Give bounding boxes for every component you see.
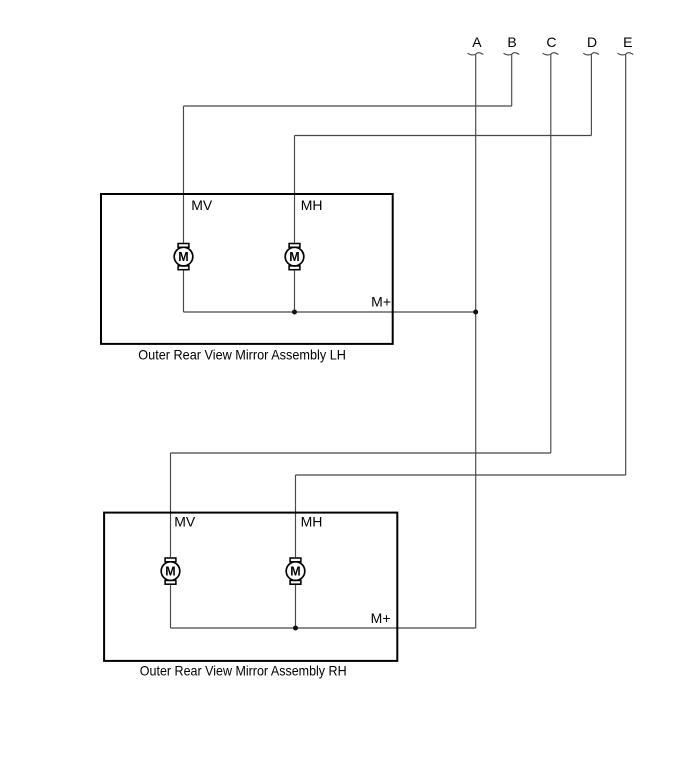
wire D horizontal to LH MH branch <box>295 135 592 137</box>
pin label M+ (RH) <box>371 610 391 626</box>
svg-text:M: M <box>165 565 175 579</box>
svg-text:MV: MV <box>191 197 213 213</box>
svg-text:M+: M+ <box>371 610 391 626</box>
svg-text:B: B <box>507 34 516 50</box>
wire D vertical: terminal D down <box>590 55 592 136</box>
connector stub D <box>583 53 599 55</box>
svg-text:MH: MH <box>301 514 323 530</box>
wire C vertical: terminal C down <box>550 55 552 453</box>
junction dot LH M+ / MH <box>292 310 297 315</box>
wire C horizontal to RH MV branch <box>171 452 551 454</box>
junction dot LH M+ / wire A <box>473 310 478 315</box>
junction dot RH M+ / MH <box>293 626 298 631</box>
svg-text:Outer Rear View Mirror Assembl: Outer Rear View Mirror Assembly RH <box>140 662 347 678</box>
wire RH MH motor bottom to M+ line <box>295 585 297 628</box>
box Outer Rear View Mirror Assembly RH <box>104 513 397 661</box>
svg-text:M: M <box>289 250 299 264</box>
pin label MV (RH) <box>174 514 196 530</box>
connector stub E <box>618 53 634 55</box>
svg-text:Outer Rear View Mirror Assembl: Outer Rear View Mirror Assembly LH <box>138 346 346 362</box>
svg-text:MH: MH <box>301 197 323 213</box>
wire LH MH vertical: down into LH box to motor MH <box>294 136 296 243</box>
wire RH MH vertical: down into RH box to motor MH <box>295 475 297 557</box>
wire B vertical: terminal B down <box>511 55 513 106</box>
terminal label D <box>587 34 597 50</box>
wire LH MH motor bottom to M+ line <box>294 271 296 312</box>
motor MH (LH) <box>285 244 304 270</box>
svg-text:C: C <box>546 34 556 50</box>
terminal label E <box>623 34 632 50</box>
svg-text:E: E <box>623 34 632 50</box>
svg-text:A: A <box>472 34 482 50</box>
caption Outer Rear View Mirror Assembly LH <box>138 346 346 362</box>
box Outer Rear View Mirror Assembly LH <box>101 194 393 344</box>
pin label MH (RH) <box>301 514 323 530</box>
wire A vertical: terminal A down to RH M+ line <box>475 55 477 628</box>
pin label M+ (LH) <box>371 293 391 309</box>
connector stub C <box>543 53 559 55</box>
motor MH (RH) <box>286 558 305 584</box>
terminal label B <box>507 34 516 50</box>
wire B horizontal to LH MV branch <box>184 105 512 107</box>
caption Outer Rear View Mirror Assembly RH <box>140 662 347 678</box>
connector stub A <box>468 53 484 55</box>
wire RH MV vertical: down into RH box to motor MV <box>170 453 172 557</box>
svg-text:M: M <box>178 250 188 264</box>
motor MV (LH) <box>174 244 193 270</box>
wire E horizontal to RH MH branch <box>296 474 626 476</box>
svg-text:MV: MV <box>174 514 196 530</box>
svg-text:M+: M+ <box>371 293 391 309</box>
terminal label C <box>546 34 556 50</box>
wire LH MV vertical: down into LH box to motor MV <box>183 106 185 243</box>
terminal label A <box>472 34 482 50</box>
wire RH M+ horizontal out to wire A corner <box>171 627 476 629</box>
svg-text:D: D <box>587 34 597 50</box>
connector stub B <box>504 53 520 55</box>
svg-text:M: M <box>290 565 300 579</box>
motor MV (RH) <box>161 558 180 584</box>
wire LH MV motor bottom to M+ line <box>183 271 185 312</box>
pin label MH (LH) <box>301 197 323 213</box>
wire LH M+ horizontal out to wire A <box>184 311 476 313</box>
wire RH MV motor bottom to M+ line <box>170 585 172 628</box>
wire E vertical: terminal E down <box>625 55 627 475</box>
pin label MV (LH) <box>191 197 213 213</box>
